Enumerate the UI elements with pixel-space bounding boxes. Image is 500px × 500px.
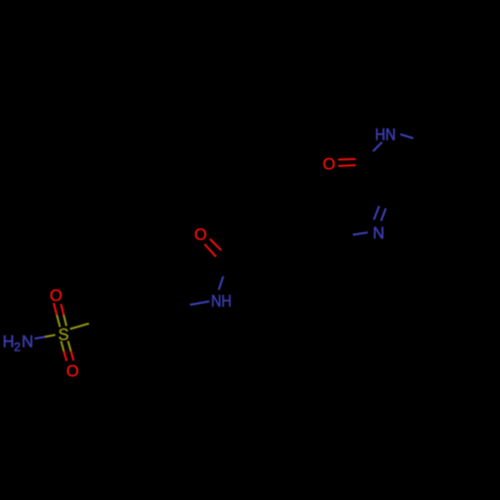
svg-text:O: O bbox=[323, 156, 336, 174]
svg-text:N: N bbox=[22, 333, 34, 351]
svg-text:N: N bbox=[373, 224, 385, 242]
svg-text:O: O bbox=[50, 287, 63, 305]
svg-text:O: O bbox=[66, 362, 79, 380]
svg-text:NH: NH bbox=[211, 292, 232, 310]
svg-text:H: H bbox=[3, 333, 15, 351]
svg-text:2: 2 bbox=[14, 340, 21, 354]
svg-text:HN: HN bbox=[375, 126, 396, 144]
svg-text:O: O bbox=[194, 226, 207, 244]
svg-text:S: S bbox=[58, 326, 69, 344]
